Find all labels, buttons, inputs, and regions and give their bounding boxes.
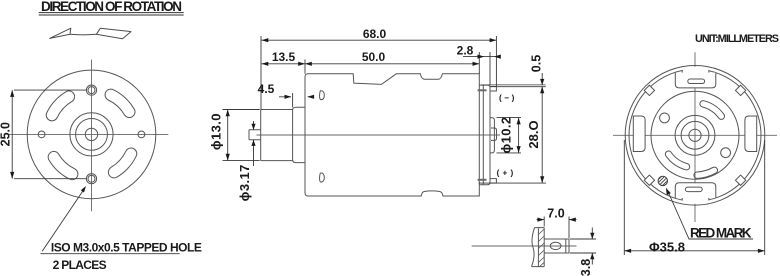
svg-text:68.0: 68.0 [363, 27, 387, 41]
rear cap circle [629, 69, 761, 201]
dimension 68.0 [261, 36, 496, 110]
dimension phi 13.0 [223, 110, 260, 161]
dimension phi 10.2 [497, 118, 522, 153]
cap wall break line [532, 228, 535, 267]
front middle circle [76, 118, 108, 150]
svg-text:ISO M3.0x0.5 TAPPED HOLE: ISO M3.0x0.5 TAPPED HOLE [51, 240, 202, 254]
svg-text:UNIT:MILLMETERS: UNIT:MILLMETERS [695, 33, 779, 45]
terminal base mark top [478, 89, 487, 91]
svg-text:25.0: 25.0 [0, 122, 13, 146]
dimension 50.0 [305, 52, 479, 74]
can dimple upper [320, 91, 325, 100]
terminal hole [550, 242, 561, 249]
dimension 28.O [479, 87, 546, 184]
terminal base mark bottom [478, 179, 487, 181]
terminal bottom [490, 179, 496, 184]
svg-text:Φ35.8: Φ35.8 [649, 239, 685, 254]
cap wall edges [532, 228, 545, 267]
title double underline [39, 13, 184, 15]
dimension 25.0 [12, 90, 86, 179]
diagonal tab NW [644, 85, 654, 95]
rear view horizontal centerline [613, 134, 777, 136]
motor can outline with notches [305, 74, 479, 196]
bottom flat [682, 197, 709, 200]
pocket left [633, 116, 645, 152]
svg-text:2.8: 2.8 [457, 44, 474, 58]
side hole right [138, 131, 145, 138]
rear outer circle [625, 66, 765, 206]
leader ISO M3.0x0.5 tapped hole [40, 190, 179, 254]
rear vent slot SW [665, 151, 689, 170]
terminal top [490, 87, 496, 92]
rear view vertical centerline [694, 52, 696, 222]
front endbell [293, 107, 305, 162]
svg-text:28.O: 28.O [526, 120, 541, 148]
rotation direction curved arrow [50, 28, 131, 39]
top flat white mask [683, 67, 709, 73]
dimension 0.5 [481, 73, 546, 87]
brush pocket bottom [675, 183, 716, 198]
rear vent slot S [694, 167, 718, 178]
bottom flat white mask [683, 198, 709, 204]
front bearing boss (phi 13) [261, 110, 293, 161]
vent slot lower-right [108, 148, 136, 178]
rear bearing bump [491, 128, 497, 140]
tapped hole top [86, 85, 96, 95]
svg-text:ϕ3.17: ϕ3.17 [237, 164, 252, 201]
svg-text:ϕ13.0: ϕ13.0 [209, 113, 224, 150]
shaft [249, 130, 261, 140]
dimension 3.8 [570, 228, 596, 265]
tapped hole bottom [86, 174, 96, 184]
vent slot upper-right [105, 89, 135, 117]
front view horizontal centerline [8, 133, 168, 135]
dimension 7.0 [537, 217, 577, 239]
can dimple lower [320, 173, 325, 182]
diagonal tab SE [735, 175, 745, 185]
bearing plate circle [651, 91, 739, 179]
screw head upper-left [660, 113, 670, 123]
cap wall hatching [538, 229, 544, 266]
screw head lower-right [721, 148, 731, 158]
svg-text:(+): (+) [497, 168, 517, 177]
terminal tab side view [544, 239, 569, 253]
svg-text:RED MARK: RED MARK [690, 225, 752, 240]
front bearing boss circle [70, 113, 113, 156]
svg-text:2 PLACES: 2 PLACES [53, 258, 107, 272]
diagonal tab NE [735, 85, 745, 95]
vent slot lower-left [48, 151, 78, 179]
svg-text:13.5: 13.5 [272, 50, 296, 64]
dimension 4.5 [279, 93, 314, 107]
rear bearing boss (phi 10.2) [490, 118, 494, 153]
svg-text:DIRECTION OF ROTATION: DIRECTION OF ROTATION [41, 0, 182, 14]
slot in top pocket [688, 79, 705, 84]
dimension 13.5 [262, 60, 306, 74]
brush pocket top [675, 73, 716, 88]
front view vertical centerline [91, 60, 93, 212]
rear ring middle [681, 121, 709, 149]
rear shaft end circle [689, 129, 701, 141]
title: DIRECTION OF ROTATION [41, 0, 182, 14]
dimension phi 35.8 [624, 140, 764, 255]
top flat [682, 70, 709, 73]
svg-text:3.8: 3.8 [579, 259, 593, 276]
rear ring outer [675, 115, 715, 155]
slot in bottom pocket [685, 187, 702, 192]
front view outer circle [27, 70, 156, 199]
svg-text:7.0: 7.0 [547, 206, 564, 220]
svg-text:4.5: 4.5 [258, 82, 275, 96]
diagonal tab SW [644, 175, 654, 185]
red mark [656, 174, 670, 191]
svg-text:50.0: 50.0 [362, 50, 386, 64]
dimension 2.8 [463, 52, 498, 85]
rear cap inner line [482, 85, 484, 185]
svg-text:(−): (−) [499, 93, 517, 102]
detail centerline [472, 245, 577, 247]
rear endbell cap [479, 85, 490, 185]
side hole left [38, 131, 45, 138]
svg-text:ϕ10.2: ϕ10.2 [499, 116, 514, 153]
rear vent slot NE [700, 101, 725, 120]
red mark leader [667, 190, 753, 239]
dimension phi 3.17 [253, 121, 255, 166]
front shaft circle [85, 128, 97, 140]
side view horizontal centerline [257, 134, 501, 136]
pocket right [745, 116, 757, 152]
vent slot upper-left [46, 91, 74, 121]
svg-text:0.5: 0.5 [530, 55, 544, 72]
